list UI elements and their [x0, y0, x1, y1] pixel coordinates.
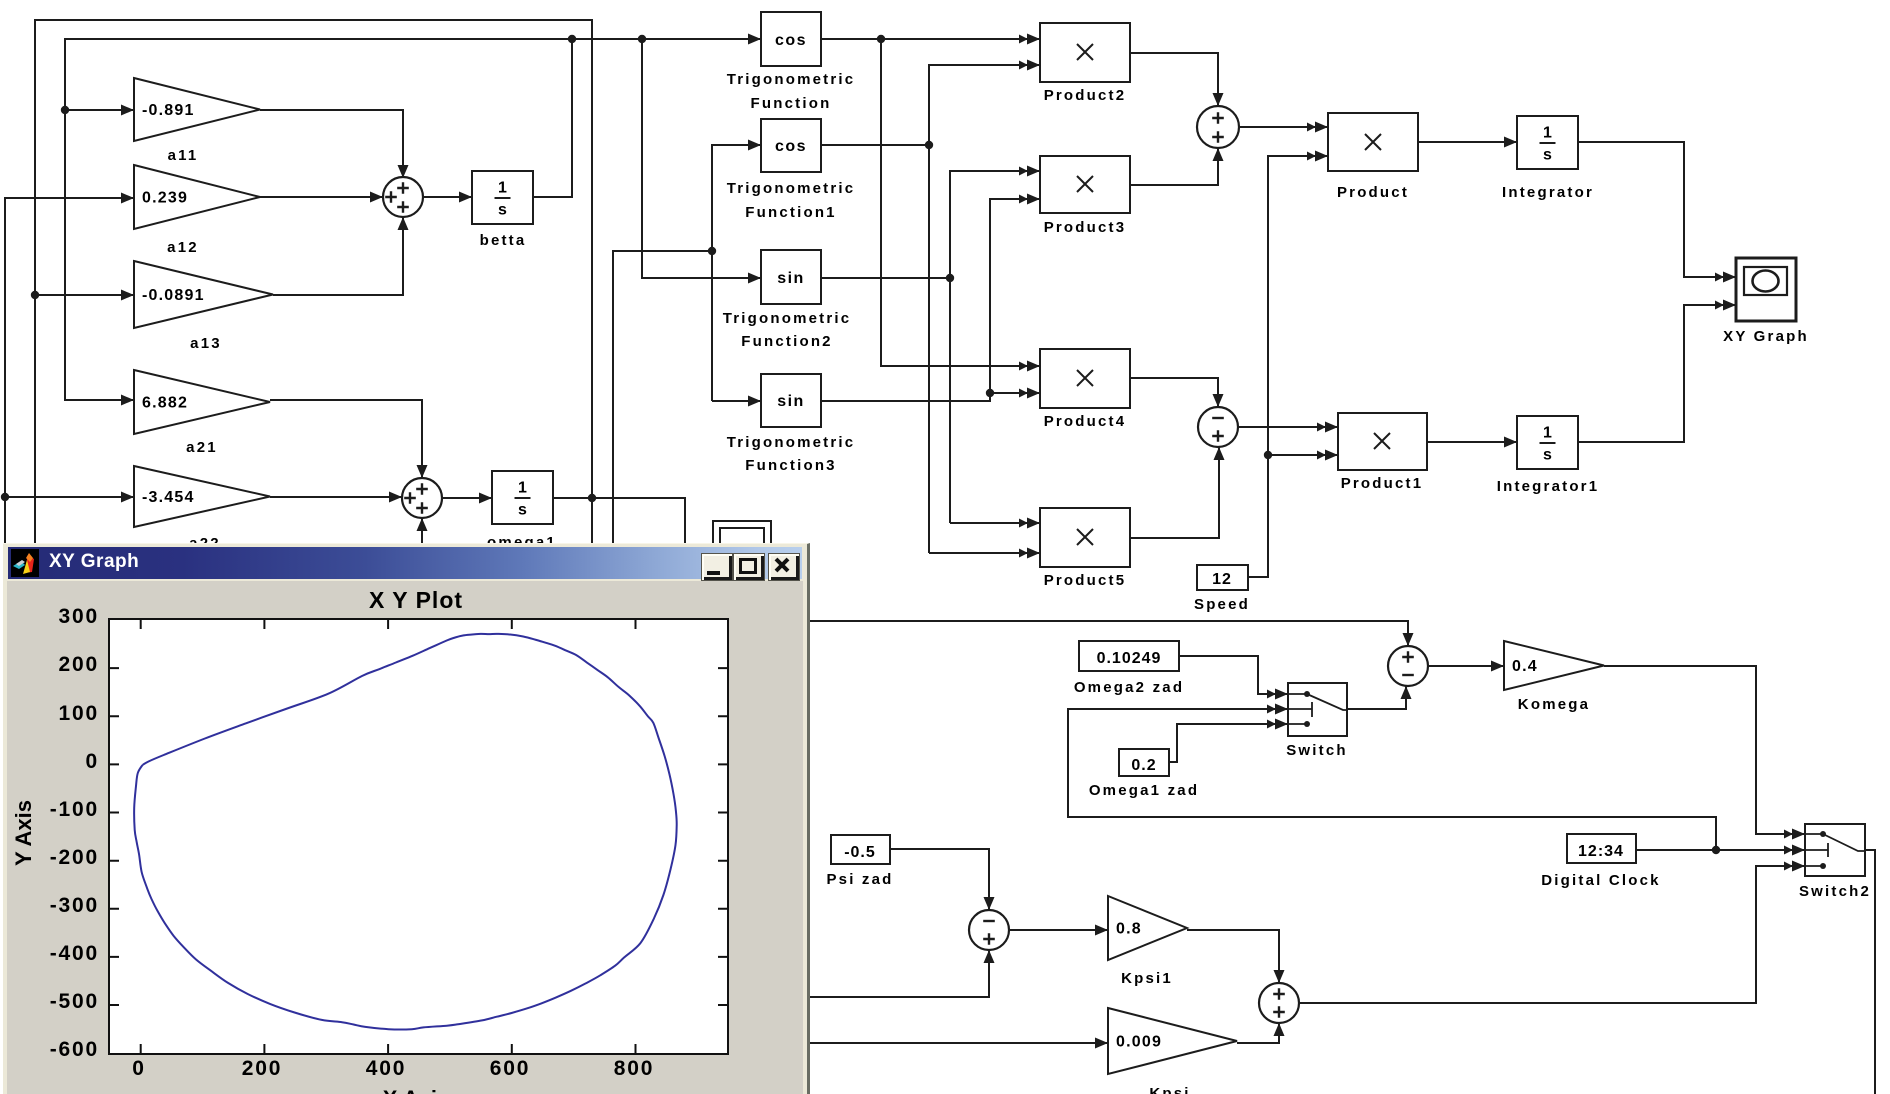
- wire Omega2 zad to Switch in1: [1179, 656, 1288, 694]
- svg-text:s: s: [1543, 447, 1552, 464]
- node speed bus: [1264, 451, 1272, 459]
- gain a22: [134, 466, 270, 527]
- svg-text:betta: betta: [480, 232, 527, 249]
- block XY Graph scope: [1736, 258, 1796, 321]
- wire Product2 output to sum: [1130, 53, 1218, 106]
- svg-text:a13: a13: [190, 335, 222, 352]
- svg-text:12: 12: [1212, 571, 1232, 588]
- svg-text:Kpsi: Kpsi: [1149, 1085, 1190, 1094]
- integrator Integrator: [1517, 116, 1578, 169]
- svg-text:sin: sin: [777, 270, 805, 287]
- wire Integrator1 output to XY Graph in2: [1578, 305, 1736, 442]
- axis tick marks: [110, 620, 727, 1053]
- wire psi bus to sin3 input: [712, 400, 761, 402]
- svg-text:Function1: Function1: [745, 204, 836, 221]
- wire sum output to Product1 in1: [1238, 426, 1338, 428]
- svg-text:0.8: 0.8: [1116, 921, 1142, 938]
- wire cos1 output: [821, 144, 929, 146]
- wire Product5 output to sum: [1130, 447, 1219, 538]
- svg-text:6.882: 6.882: [142, 395, 188, 412]
- wire branch to gain a11: [65, 109, 134, 111]
- sum betta (+ + +): [383, 177, 423, 217]
- plot title X Y Plot: [316, 587, 516, 614]
- block Product4: [1040, 349, 1130, 408]
- wire omega1 output to x685 then down: [553, 498, 685, 545]
- svg-text:-0.891: -0.891: [142, 102, 195, 119]
- block Omega2 zad (0.10249): [1079, 641, 1179, 671]
- y axis caption: [11, 788, 37, 878]
- minimize button: [701, 553, 733, 581]
- wire Kpsi sum output to Switch2 in3: [1299, 866, 1805, 1003]
- node betta bus at x642: [638, 35, 646, 43]
- wire omega feedback into Komega sum: [750, 621, 1408, 646]
- y tick labels: [13, 605, 99, 629]
- wire Digital Clock output to Switch2 in2: [1636, 849, 1805, 851]
- block Digital Clock (12:34): [1567, 834, 1636, 863]
- svg-text:s: s: [1543, 147, 1552, 164]
- wire omega1 feedback bus (x592 up, top y20, x35 down): [35, 20, 592, 545]
- node sin3 output junction: [986, 389, 994, 397]
- wire psi rate feedback into Kpsi: [806, 1042, 1108, 1044]
- figure body: [7, 581, 803, 1094]
- svg-text:Switch: Switch: [1286, 742, 1348, 759]
- svg-text:Trigonometric: Trigonometric: [727, 434, 856, 451]
- svg-text:12:34: 12:34: [1578, 843, 1624, 860]
- close button: [768, 553, 800, 581]
- gain Komega: [1504, 641, 1604, 690]
- wire a13 output into betta sum bottom: [273, 217, 403, 295]
- svg-text:1: 1: [498, 180, 507, 197]
- svg-text:1: 1: [1543, 125, 1552, 142]
- gain a21: [134, 370, 270, 434]
- block Omega1 zad (0.2): [1119, 749, 1169, 776]
- integrator Integrator1: [1517, 416, 1578, 469]
- wire Kpsi output up into sum: [1237, 1023, 1279, 1043]
- node a13 tap: [31, 291, 39, 299]
- svg-text:a11: a11: [168, 147, 199, 164]
- block Product: [1328, 113, 1418, 171]
- sum omega1 (+ + +): [402, 478, 442, 518]
- trajectory curve: [134, 634, 677, 1030]
- block Product5: [1040, 508, 1130, 567]
- svg-text:s: s: [518, 502, 527, 519]
- wire Komega sum output: [1428, 665, 1504, 667]
- x axis caption: [316, 1086, 516, 1094]
- sum y-channel (- +): [1198, 407, 1238, 447]
- window title: [49, 551, 139, 573]
- svg-text:0.009: 0.009: [1116, 1034, 1162, 1051]
- sum x-channel (+ +): [1197, 106, 1239, 148]
- svg-text:Omega2 zad: Omega2 zad: [1074, 679, 1184, 696]
- svg-text:Product: Product: [1337, 184, 1409, 201]
- wire sin2 output: [821, 277, 950, 279]
- wire Speed branch to Product1 in2: [1268, 454, 1338, 456]
- gain a11: [134, 78, 260, 141]
- svg-text:Product5: Product5: [1044, 572, 1127, 589]
- wire Switch2 output down: [1865, 850, 1875, 1094]
- gain Kpsi1: [1108, 896, 1187, 960]
- block hidden scope (behind window): [713, 521, 771, 556]
- node a22 tap: [1, 493, 9, 501]
- node sin2 output junction: [946, 274, 954, 282]
- node cos output tap: [877, 35, 885, 43]
- wire sin3 bus to Product4 in2: [990, 392, 1040, 394]
- block Trigonometric Function3 (sin): [761, 374, 821, 427]
- svg-text:Product4: Product4: [1044, 413, 1127, 430]
- wire branch to gain a22: [5, 496, 134, 498]
- wire Kpsi1 output down into sum: [1187, 930, 1279, 983]
- wire psi feedback up x613 to x712: [613, 251, 712, 545]
- wire Product4 output to sum: [1130, 378, 1218, 407]
- svg-text:Kpsi1: Kpsi1: [1121, 970, 1173, 987]
- wire omega1 sum output to integrator: [442, 497, 492, 499]
- block Trigonometric Function2 (sin): [761, 250, 821, 304]
- block Product3: [1040, 156, 1130, 213]
- wire Komega output down to Switch2 in1: [1604, 666, 1805, 834]
- svg-text:-0.0891: -0.0891: [142, 287, 205, 304]
- wire Speed 12 up to Product in2: [1248, 156, 1328, 577]
- svg-text:XY Graph: XY Graph: [1723, 328, 1809, 345]
- svg-text:Product1: Product1: [1341, 475, 1424, 492]
- wire Omega1 zad to Switch in3: [1169, 724, 1288, 762]
- svg-text:0.2: 0.2: [1131, 757, 1156, 774]
- block Switch2: [1805, 824, 1865, 876]
- svg-text:-0.5: -0.5: [844, 844, 876, 861]
- block Product2: [1040, 23, 1130, 82]
- svg-text:0.239: 0.239: [142, 190, 188, 207]
- svg-text:1: 1: [518, 480, 527, 497]
- wire Product output to Integrator: [1418, 141, 1517, 143]
- svg-text:Omega1 zad: Omega1 zad: [1089, 782, 1199, 799]
- svg-text:Psi zad: Psi zad: [826, 871, 893, 888]
- block Psi zad (-0.5): [831, 835, 890, 864]
- wire betta output feedback up to top bus: [533, 39, 572, 197]
- wire top bus left branch down to gain a21: [65, 39, 572, 400]
- wire betta sum output to integrator: [423, 196, 472, 198]
- wire sin2 bus up to Product3 in1: [950, 171, 1040, 523]
- wire Switch output up into Komega sum: [1347, 686, 1406, 709]
- wire cos1 bus to Product5 in2: [929, 552, 1040, 554]
- wire a21 output into omega1 sum top: [270, 400, 422, 478]
- svg-text:Digital Clock: Digital Clock: [1541, 872, 1660, 889]
- wire clock control loop to Switch in2: [1068, 709, 1716, 850]
- node omega1 output junction: [588, 494, 596, 502]
- wire branch to gain a13: [35, 294, 134, 296]
- matlab icon: [11, 549, 39, 577]
- gain a13: [134, 261, 273, 328]
- svg-text:Function3: Function3: [745, 457, 836, 474]
- svg-text:Function2: Function2: [741, 333, 832, 350]
- svg-text:Switch2: Switch2: [1799, 883, 1871, 900]
- wire cos output to Product2 in1: [821, 38, 1040, 40]
- node cos1 output junction: [925, 141, 933, 149]
- XY Graph figure window: [3, 543, 810, 1094]
- wire sin3 bus up to Product3 in2: [990, 199, 1040, 393]
- wire cos1 bus up to Product2 in2: [929, 65, 1040, 553]
- svg-text:Product3: Product3: [1044, 219, 1127, 236]
- wire psi bus to cos1 input: [712, 145, 761, 401]
- svg-text:Trigonometric: Trigonometric: [727, 71, 856, 88]
- svg-text:a12: a12: [167, 239, 199, 256]
- svg-text:Integrator1: Integrator1: [1497, 478, 1600, 495]
- svg-text:Trigonometric: Trigonometric: [727, 180, 856, 197]
- integrator omega1: [492, 471, 553, 524]
- wire sin2 bus to Product5 in1: [950, 522, 1040, 524]
- wire sum output to Product in1: [1239, 126, 1328, 128]
- wire cos output branch down to Product4 in1: [881, 39, 1040, 366]
- wire psi sum output to Kpsi1: [1009, 929, 1108, 931]
- wire a22 output into omega1 sum left: [270, 496, 402, 498]
- node clock tap: [1712, 846, 1720, 854]
- integrator betta: [472, 171, 533, 224]
- svg-text:Function: Function: [751, 95, 832, 112]
- wire Psi zad down into psi sum: [890, 849, 989, 910]
- block Trigonometric Function1 (cos): [761, 119, 821, 172]
- x tick labels: [94, 1057, 184, 1081]
- svg-text:Integrator: Integrator: [1502, 184, 1594, 201]
- node a11 tap: [61, 106, 69, 114]
- sum Kpsi (+ +): [1259, 983, 1299, 1023]
- node betta bus at x572: [568, 35, 576, 43]
- wire top bus into cos: [572, 38, 761, 40]
- wire sin3 output: [821, 393, 990, 401]
- svg-text:0.10249: 0.10249: [1097, 650, 1162, 667]
- svg-text:a21: a21: [186, 439, 218, 456]
- svg-text:Speed: Speed: [1194, 596, 1250, 613]
- svg-text:0.4: 0.4: [1512, 658, 1538, 675]
- svg-text:1: 1: [1543, 425, 1552, 442]
- svg-text:Komega: Komega: [1518, 696, 1590, 713]
- wire down to sin2 input: [642, 39, 761, 278]
- wire Product1 output to Integrator1: [1427, 441, 1517, 443]
- wire a12 output into betta sum left: [260, 196, 383, 198]
- svg-text:Product2: Product2: [1044, 87, 1127, 104]
- block Product1: [1338, 413, 1427, 470]
- sum Komega (+ -): [1388, 646, 1428, 686]
- wire Integrator output to XY Graph in1: [1578, 142, 1736, 277]
- gain a12: [134, 165, 260, 229]
- wire psi feedback into psi sum: [806, 950, 989, 997]
- block Switch: [1288, 683, 1347, 736]
- block Trigonometric Function (cos): [761, 12, 821, 66]
- gain Kpsi: [1108, 1008, 1237, 1074]
- svg-text:-3.454: -3.454: [142, 489, 195, 506]
- wire Product3 output to sum: [1130, 148, 1218, 185]
- title bar: [8, 547, 802, 579]
- svg-text:Trigonometric: Trigonometric: [723, 310, 852, 327]
- block Speed (12): [1197, 565, 1248, 590]
- maximize button: [733, 553, 765, 581]
- node psi bus junction: [708, 247, 716, 255]
- wire a11 output into betta sum top: [260, 110, 403, 178]
- svg-text:s: s: [498, 202, 507, 219]
- wire left feedback x5 up to gain a12: [5, 198, 134, 545]
- svg-text:cos: cos: [775, 138, 807, 155]
- wire hidden input into omega1 sum bottom: [421, 518, 423, 556]
- svg-text:sin: sin: [777, 393, 805, 410]
- svg-text:cos: cos: [775, 32, 807, 49]
- sum psi error (- +): [969, 910, 1009, 950]
- axes area: [108, 618, 729, 1055]
